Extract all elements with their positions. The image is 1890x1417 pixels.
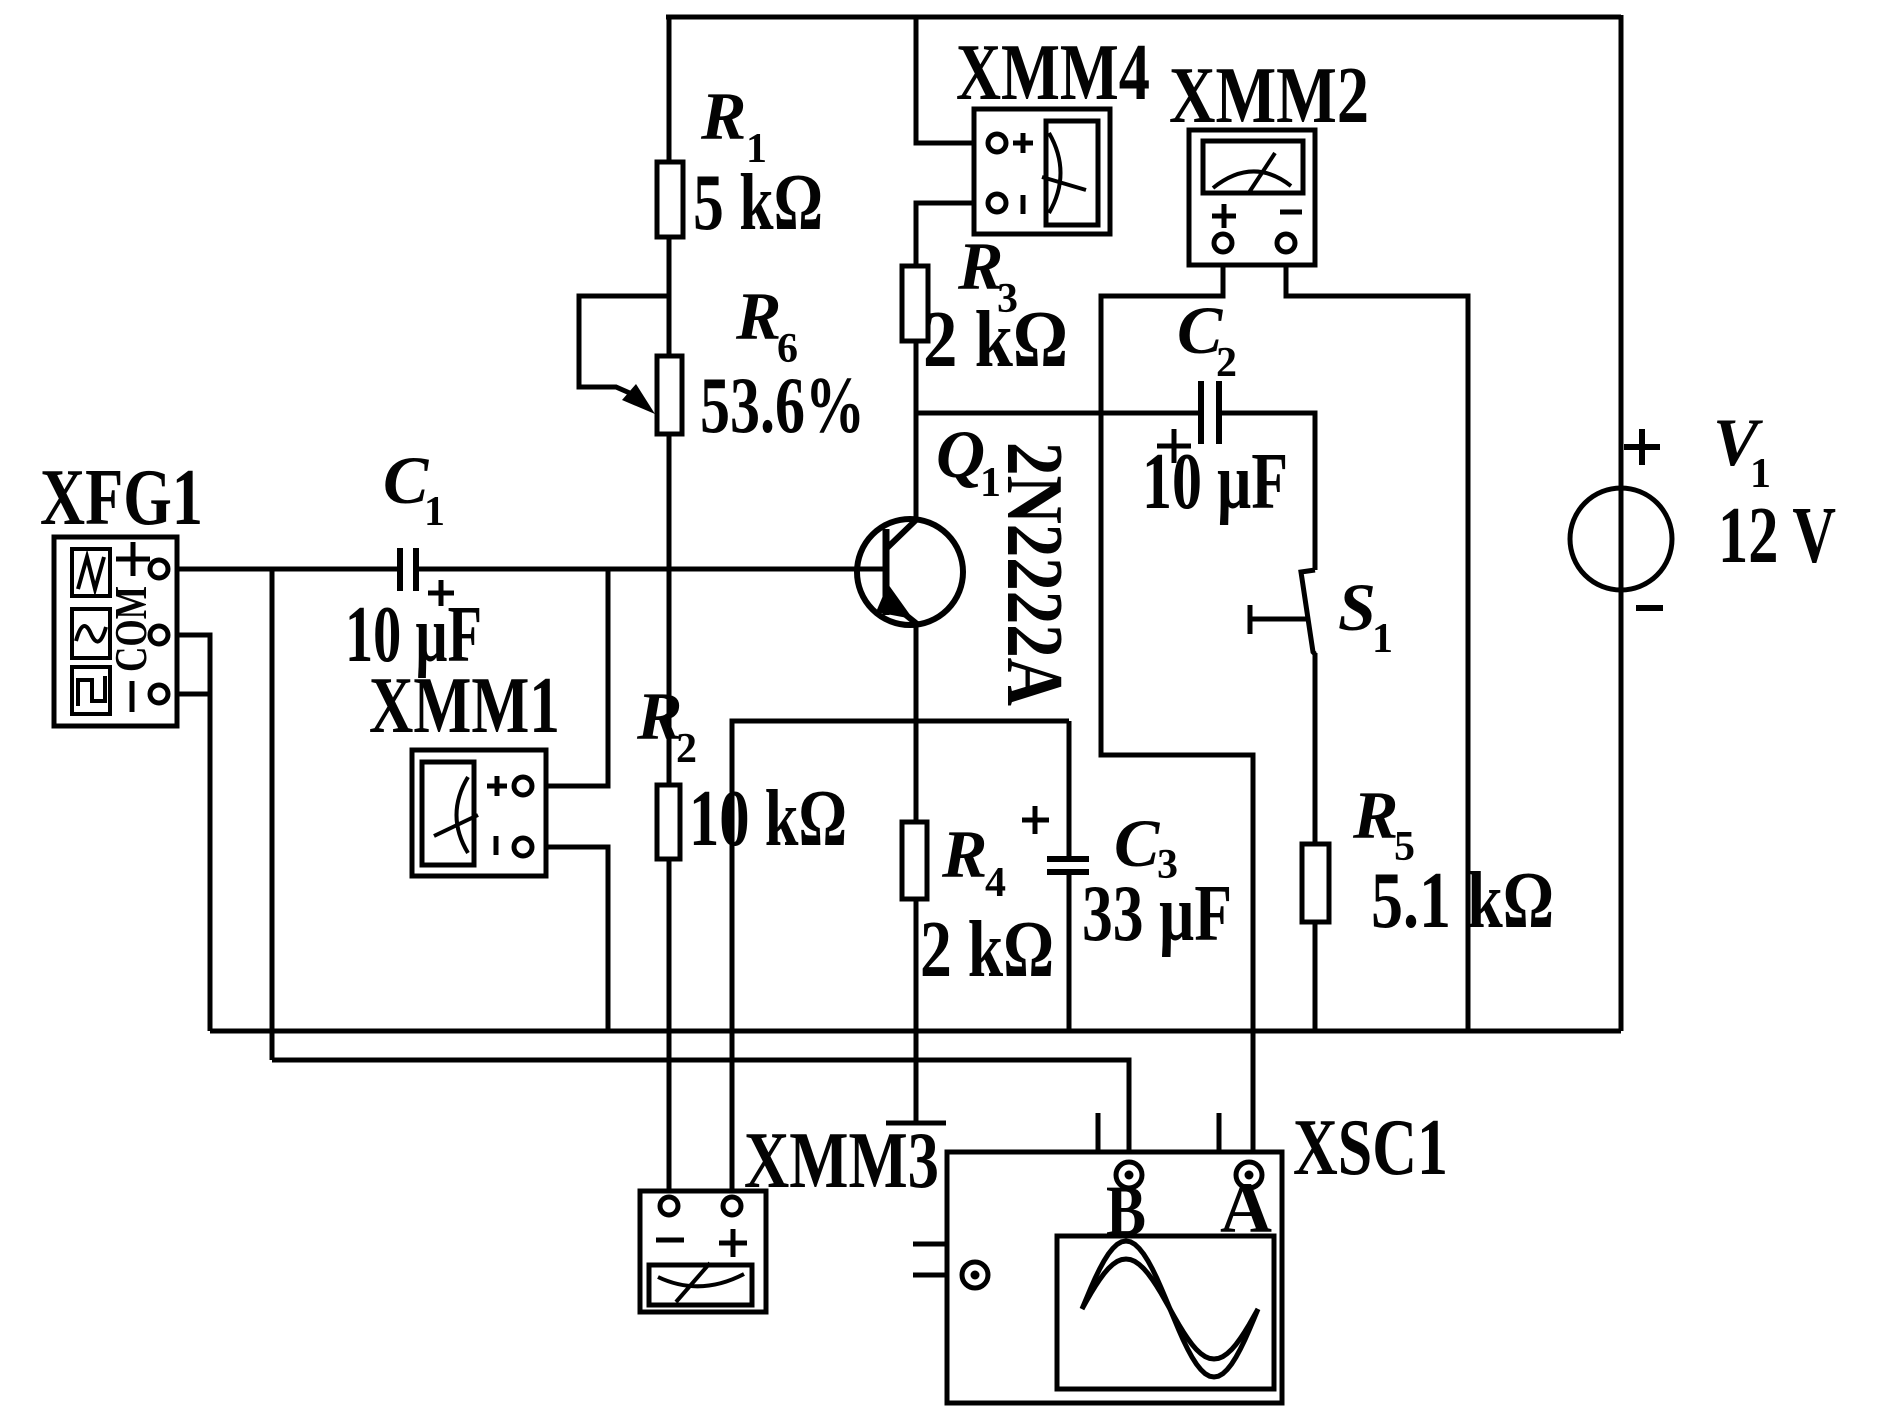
svg-text:XSC1: XSC1 xyxy=(1293,1104,1448,1192)
wire C2 right to S1 xyxy=(1219,413,1315,570)
wire R3 bottom to collector xyxy=(914,341,919,520)
svg-text:COM: COM xyxy=(105,586,156,672)
svg-text:10 kΩ: 10 kΩ xyxy=(689,775,847,863)
node B hook xyxy=(1098,1113,1116,1174)
svg-text:2 kΩ: 2 kΩ xyxy=(920,906,1054,994)
svg-text:2N2222A: 2N2222A xyxy=(990,442,1078,706)
wire XFG1 COM xyxy=(167,635,210,1031)
oscilloscope XSC1 xyxy=(947,1152,1282,1403)
svg-text:B: B xyxy=(1106,1171,1146,1251)
multimeter XMM4 xyxy=(974,109,1110,234)
wire XMM2 plus to scope A xyxy=(1101,252,1253,1164)
wire R4 bottom to ground symbol xyxy=(914,899,919,1123)
svg-text:R: R xyxy=(735,278,781,354)
wire R6 wiper bracket xyxy=(579,296,669,394)
wire C1 to base xyxy=(416,567,886,572)
node A hook xyxy=(1219,1113,1236,1174)
svg-text:XMM1: XMM1 xyxy=(369,662,560,750)
wire XMM1 minus down to ground rail xyxy=(532,847,608,1031)
node ext trigger terminal xyxy=(962,1262,988,1288)
voltage source V1 xyxy=(1570,488,1672,590)
wire collector node to C2 xyxy=(916,411,1201,416)
wire XMM4 minus to R3 xyxy=(916,203,989,266)
wire S1 bottom to R5 xyxy=(1313,653,1318,844)
svg-text:C: C xyxy=(383,442,429,518)
wire base input from XFG1 xyxy=(167,567,400,572)
wire XMM3 plus to emitter node xyxy=(732,721,1069,1198)
wire input branch down xyxy=(270,569,275,1060)
svg-text:5 kΩ: 5 kΩ xyxy=(693,159,823,247)
capacitor C3 xyxy=(1047,859,1089,872)
svg-text:1: 1 xyxy=(1372,616,1393,662)
svg-text:4: 4 xyxy=(985,860,1006,906)
resistor R5 xyxy=(1302,844,1329,922)
ground xyxy=(886,1121,946,1126)
wire top rail xyxy=(666,15,1621,20)
svg-text:5.1 kΩ: 5.1 kΩ xyxy=(1371,857,1554,945)
node A terminal xyxy=(1236,1162,1262,1188)
wire signal rail to scope B xyxy=(272,1060,1129,1164)
svg-text:R: R xyxy=(700,78,746,154)
svg-text:2 kΩ: 2 kΩ xyxy=(923,296,1068,384)
wire emitter to R4 xyxy=(914,621,919,822)
wire right rail xyxy=(1619,15,1624,1031)
capacitor C2 xyxy=(1201,381,1219,444)
resistor R2 xyxy=(657,785,680,859)
capacitor C1 xyxy=(400,548,416,591)
wire R2 bottom to XMM3 minus xyxy=(667,859,672,1198)
wire XMM1 plus up to input xyxy=(532,569,608,786)
function generator XFG1 xyxy=(54,537,177,726)
wire R6 to base node to R2 xyxy=(667,434,672,785)
svg-text:1: 1 xyxy=(424,489,445,535)
wire XFG1 minus xyxy=(167,692,210,697)
svg-text:R: R xyxy=(941,816,987,892)
multimeter XMM1 xyxy=(412,750,546,876)
svg-text:12 V: 12 V xyxy=(1718,492,1836,580)
svg-text:10 µF: 10 µF xyxy=(1142,438,1288,526)
svg-text:Q: Q xyxy=(936,416,985,492)
multimeter XMM3 xyxy=(640,1191,766,1312)
switch S1 xyxy=(1250,570,1315,654)
transistor Q1 xyxy=(857,519,963,625)
node ext trigger prongs xyxy=(913,1244,977,1262)
resistor R3 xyxy=(902,266,928,341)
svg-text:53.6%: 53.6% xyxy=(700,362,865,450)
wire left column top xyxy=(667,17,672,162)
wire R5 bottom to ground rail xyxy=(1313,922,1318,1031)
svg-text:A: A xyxy=(1220,1168,1272,1248)
multimeter XMM2 xyxy=(1189,130,1315,265)
resistor R4 xyxy=(902,822,927,899)
svg-text:1: 1 xyxy=(1750,451,1771,497)
svg-text:XMM4: XMM4 xyxy=(956,29,1150,117)
wire bottom ground rail xyxy=(210,1029,1621,1034)
svg-text:XMM2: XMM2 xyxy=(1169,52,1369,140)
svg-text:33 µF: 33 µF xyxy=(1082,870,1232,958)
svg-text:S: S xyxy=(1338,569,1376,645)
wire R1 to R6 xyxy=(667,237,672,356)
svg-text:2: 2 xyxy=(676,726,697,772)
svg-text:XFG1: XFG1 xyxy=(40,454,203,542)
wire C3 bottom to ground rail xyxy=(1067,874,1072,1031)
wire XMM2 minus to ground rail xyxy=(1286,252,1468,1031)
svg-text:XMM3: XMM3 xyxy=(744,1117,939,1205)
svg-text:R: R xyxy=(1352,777,1398,853)
potentiometer R6 xyxy=(657,356,682,434)
resistor R1 xyxy=(657,162,683,237)
wire C3 top xyxy=(1067,721,1072,857)
svg-text:2: 2 xyxy=(1216,340,1237,386)
node B terminal xyxy=(1116,1162,1142,1188)
wire XMM4 plus from top rail xyxy=(916,17,989,143)
